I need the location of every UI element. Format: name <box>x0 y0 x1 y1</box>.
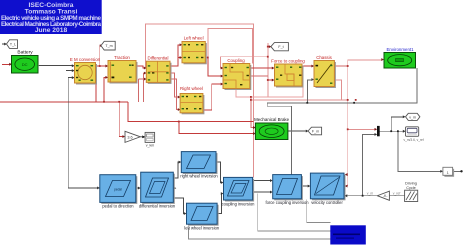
arrow into coupling inv p1 <box>221 181 224 184</box>
wire: pink bus y99.9 <box>252 99 348 101</box>
svg-text:v_m/3.6, v_ref: v_m/3.6, v_ref <box>404 138 424 142</box>
arrow right wheel p2 <box>178 108 181 111</box>
traction block <box>108 55 138 84</box>
svg-text:Chassis: Chassis <box>316 55 332 60</box>
wire: gain2 to velocity controller <box>346 195 377 197</box>
arrow F_m tag <box>306 130 309 133</box>
arrow coupling p2 <box>221 75 224 78</box>
svg-text:v_m: v_m <box>367 192 374 196</box>
arrow diff p2 <box>144 72 147 75</box>
wire: right wheel inv out to coupling inv <box>218 162 222 183</box>
wire: long red line y101.8 <box>0 101 128 103</box>
arrowheads <box>4 43 443 215</box>
left wheel block <box>182 36 207 65</box>
unit block <box>443 167 454 177</box>
wire: top loop H1 <box>146 24 254 178</box>
arrow coupling p3 <box>221 83 224 86</box>
wire: coupling out2 to x267.8 riser <box>250 75 268 77</box>
gain1 triangle <box>125 131 140 142</box>
gain2 triangle <box>377 191 389 200</box>
junction v_m line / mux feed <box>347 128 349 130</box>
arrow force p1 <box>272 67 275 70</box>
svg-text:Environment1: Environment1 <box>386 47 414 52</box>
junction pink bus aux <box>355 99 357 101</box>
arrow into left wheel inv <box>184 212 187 215</box>
wire: force inv out to velocity controller <box>301 185 308 187</box>
battery block <box>12 50 39 74</box>
annotation dark blue box <box>330 225 366 244</box>
force coupling block <box>271 59 305 88</box>
svg-text:-K-: -K- <box>383 194 388 198</box>
wire: riser to tag B <box>99 46 101 66</box>
wire: coupling bottom bus y96.8 <box>236 87 303 97</box>
wire: coupling out1 to force coupling p1 <box>250 67 272 69</box>
arrow vel ctrl left in <box>345 194 348 197</box>
wire: long red continues y121.5 <box>128 102 254 122</box>
junction gain2 line / mux riser <box>362 195 364 197</box>
wire: left wheel out loop H2 <box>205 29 252 64</box>
arrow coupling p1 <box>221 67 224 70</box>
left wheel inversion block <box>184 203 220 230</box>
right wheel inversion block <box>180 152 218 179</box>
wire: coupling inv to force inv line2 <box>253 191 271 193</box>
force coupling inversion block <box>265 175 309 205</box>
wire: unit block out <box>453 170 462 172</box>
arrow scope in <box>403 130 406 133</box>
wire: diff inv out1 to right wheel inv <box>173 162 179 178</box>
svg-text:T_m: T_m <box>105 44 112 48</box>
arrow chassis p2 <box>311 78 314 81</box>
coupling block <box>223 58 251 90</box>
svg-text:T_L: T_L <box>10 43 16 47</box>
arrow mux in1 pink <box>375 128 378 131</box>
svg-text:pedal: pedal <box>114 188 122 192</box>
junction long red line / gain drop <box>118 101 120 103</box>
junction pink bus left end <box>250 99 252 101</box>
pedal to direction block <box>100 175 138 209</box>
title banner <box>0 0 102 34</box>
svg-text:E M conversion: E M conversion <box>70 57 101 62</box>
arrow vel ctrl right p1 <box>345 173 348 176</box>
arrow left wheel p1 <box>180 43 183 46</box>
wire: EM p2 stub <box>66 70 73 72</box>
svg-text:Left wheel: Left wheel <box>184 36 204 41</box>
node terminal dot right <box>460 170 462 172</box>
wire: driving cycle to gain2 <box>389 195 404 197</box>
junction env return / chassis p2 riser <box>306 102 308 104</box>
svg-text:Cycle: Cycle <box>406 186 416 190</box>
svg-text:F_m: F_m <box>312 130 319 134</box>
svg-text:differential inversion: differential inversion <box>139 204 176 209</box>
arrow env in <box>381 58 384 61</box>
arrow left wheel p2 <box>180 56 183 59</box>
wire: force coupling out to chassis <box>302 65 312 67</box>
wire: battery to EM conversion <box>38 64 73 66</box>
wire: chassis out to junction <box>334 65 347 67</box>
wire: branch to tag vm <box>391 117 403 131</box>
wire: diff inv out3 to left wheel inv <box>173 198 184 214</box>
wire: net B y56.7 to coupling p1 <box>220 57 267 68</box>
svg-text:right wheel inversion: right wheel inversion <box>180 174 218 179</box>
svg-text:Traction: Traction <box>114 55 130 60</box>
arrow into force inv p1 <box>270 179 273 182</box>
svg-text:left wheel inversion: left wheel inversion <box>184 226 220 231</box>
arrow brake p1 <box>253 126 256 129</box>
arrow EM p1 <box>72 64 75 67</box>
wire: to force coupling p2 <box>268 79 273 81</box>
junction y121.5 / brake drop <box>178 121 180 123</box>
arrow diff p1 <box>144 67 147 70</box>
junction EM out / tag B riser <box>99 65 101 67</box>
wire: chassis out2 drop <box>334 80 341 100</box>
arrow battery in <box>9 63 12 66</box>
arrow chassis p1 <box>311 65 314 68</box>
svg-text:Mechanical Brake: Mechanical Brake <box>254 117 289 122</box>
svg-text:pedal to direction: pedal to direction <box>102 204 134 209</box>
wire: v_m pink to mux <box>348 128 376 130</box>
arrow traction p1 <box>105 65 108 68</box>
arrow mux in2 <box>375 133 378 136</box>
wire: coupling inv to force inv line1 <box>253 180 271 182</box>
arrow diff p3 <box>144 78 147 81</box>
svg-text:v_ref: v_ref <box>393 192 401 196</box>
tag F_m <box>308 127 322 135</box>
tag F_t <box>271 43 289 51</box>
wire: annotation feed S1 <box>188 228 330 239</box>
display v_km <box>140 132 154 147</box>
arrow into right wheel inv <box>179 161 182 164</box>
wire: junction riser to mux <box>363 134 376 195</box>
arrow tag A <box>4 43 7 46</box>
svg-text:3.6: 3.6 <box>127 135 132 139</box>
wire: diff out2 to right wheel p1 <box>170 73 178 97</box>
junction long red line / traction riser <box>103 101 105 103</box>
svg-text:coupling inversion: coupling inversion <box>222 201 255 206</box>
right wheel block <box>180 86 204 114</box>
svg-text:Force to coupling: Force to coupling <box>271 59 305 64</box>
junction x267.8 / force p2 <box>267 79 269 81</box>
wire: left wheel out to coupling p2 <box>208 58 222 77</box>
arrow diff inv out2 nub <box>174 187 177 190</box>
tag B <box>101 41 115 50</box>
wire: v_m vertical feedback <box>347 60 349 186</box>
EM conversion block <box>70 57 101 85</box>
junction env return aux <box>353 102 355 104</box>
wire: right wheel out to coupling p3 <box>203 84 221 110</box>
wire: x250.9 down to brake p1 <box>251 97 254 128</box>
wire: Traction to Differential <box>136 66 145 68</box>
arrow into diff inv p2 <box>138 187 141 190</box>
wire: annotation feed S3 <box>307 200 331 223</box>
wire: environment return <box>267 68 417 176</box>
svg-text:v_km: v_km <box>146 144 155 148</box>
wire: arrow into F_t tag <box>268 46 269 48</box>
chassis block <box>314 55 336 88</box>
arrow traction p2 <box>105 76 108 79</box>
wire: gain1 feed <box>119 102 123 137</box>
svg-text:DC: DC <box>22 62 28 67</box>
arrow into force inv p2 <box>270 191 273 194</box>
coupling inversion block <box>222 177 255 206</box>
arrow vel ctrl right p2 <box>345 185 348 188</box>
wire: branch down to unit block <box>398 131 441 171</box>
wire: diff p3 feed riser <box>137 79 139 102</box>
arrow EM p2 <box>72 69 75 72</box>
wire: drop to brake p2 <box>179 122 254 134</box>
svg-text:force coupling inversion: force coupling inversion <box>265 200 309 205</box>
wire: tag A input stub <box>2 43 5 45</box>
mux <box>377 126 380 136</box>
arrow F_t tag <box>269 45 272 48</box>
velocity controller block <box>310 173 345 205</box>
wire: diff out3 to right wheel p2 <box>170 79 178 110</box>
wire: battery input stub <box>2 63 10 65</box>
svg-text:Coupling: Coupling <box>227 58 245 63</box>
junction mux out / down branch <box>397 130 399 132</box>
differential inversion block <box>139 172 176 208</box>
wire: annotation feed S2 <box>258 194 331 231</box>
arrow EM p3 <box>72 76 75 79</box>
wire: EM out to Traction <box>96 65 107 67</box>
svg-text:June 2018: June 2018 <box>35 27 68 34</box>
mechanical brake block <box>254 117 289 140</box>
arrow into vel ctrl left port <box>308 185 311 188</box>
svg-text:v_m: v_m <box>409 115 416 119</box>
junction x267.8 / y56.7 <box>267 56 269 58</box>
tag A <box>7 40 18 49</box>
svg-text:Driving: Driving <box>405 182 417 186</box>
arrow tag B <box>100 44 103 47</box>
svg-text:Differential: Differential <box>148 56 169 61</box>
wire: mux out to scope <box>380 130 404 132</box>
driving cycle block <box>405 182 418 202</box>
junction v_m line / pink bus <box>347 99 349 101</box>
wire: pedal block out to diff inv <box>136 187 139 189</box>
wire: environment input <box>348 59 382 61</box>
wire: chassis p2 feed <box>307 80 312 103</box>
tag v_m <box>406 113 420 120</box>
wire: traction p2 riser <box>104 77 106 101</box>
arrow pedal in <box>97 187 100 190</box>
svg-text:F_t: F_t <box>278 45 283 49</box>
wire: left wheel inv out to coupling inv <box>217 194 222 214</box>
wire: EM p3 long feedback from pedal block <box>68 78 99 188</box>
svg-text:velocity controller: velocity controller <box>311 200 343 205</box>
arrow brake p2 <box>253 132 256 135</box>
svg-text:Battery: Battery <box>17 50 33 56</box>
svg-text:Right wheel: Right wheel <box>180 86 203 91</box>
arrow unit block in <box>440 170 443 173</box>
differential block <box>146 56 171 84</box>
wire: diff out1 to left wheel ports <box>170 45 180 66</box>
arrow gain1 in <box>122 135 125 138</box>
scope block <box>404 127 424 142</box>
junction coupling bottom bus / brake feed <box>250 96 252 98</box>
arrow force p2 <box>272 79 275 82</box>
junction mux out / tag branch <box>390 130 392 132</box>
wire: diff p2 feed riser <box>143 73 145 102</box>
junction F_t tag riser <box>267 46 269 48</box>
arrow tag vm in <box>403 115 406 118</box>
wire: vertical x267.8 <box>267 43 269 97</box>
arrow right wheel p1 <box>178 96 181 99</box>
wire: brake out to F_m tag <box>288 130 307 132</box>
arrow into coupling inv p2 <box>221 192 224 195</box>
junction left wheel out <box>207 57 209 59</box>
wire: EM bottom riser <box>95 83 97 102</box>
environment block <box>384 47 416 68</box>
junction chassis out <box>347 65 349 67</box>
